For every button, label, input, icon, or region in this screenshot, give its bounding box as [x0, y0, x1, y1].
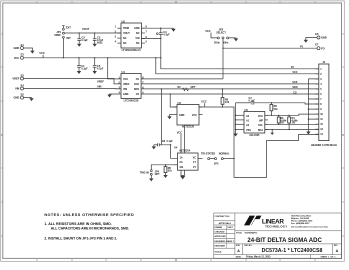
svg-text:CHECKED: CHECKED: [215, 232, 225, 234]
title block address: [291, 215, 329, 229]
svg-text:FO: FO: [321, 46, 325, 50]
resistor R2 OPT: [178, 86, 197, 91]
svg-text:CS: CS: [293, 91, 297, 94]
jumper JP3: [201, 153, 230, 166]
wire U5 VCC to J1 pin10: [265, 114, 319, 115]
connector J1: [311, 60, 337, 147]
resistor R3: [277, 115, 287, 125]
wire VREF to U1: [24, 79, 122, 84]
svg-text:LTC2400CS8: LTC2400CS8: [124, 99, 139, 102]
svg-text:OPT: OPT: [191, 86, 197, 89]
svg-text:6032: 6032: [97, 41, 103, 44]
svg-text:F0: F0: [300, 44, 304, 48]
wire VCC rail corner to J1 pin1: [161, 58, 319, 69]
ground stub near U5 SDA: [270, 129, 274, 135]
wire U4 bottom to ground: [180, 170, 185, 179]
svg-text:SHEET 1 OF 1: SHEET 1 OF 1: [321, 257, 337, 259]
svg-text:INT: INT: [67, 36, 72, 40]
svg-text:SCHEMATIC: SCHEMATIC: [245, 232, 258, 235]
svg-text:DATE:: DATE:: [236, 256, 242, 259]
svg-text:VCC: VCC: [14, 56, 20, 60]
svg-text:4.7µF: 4.7µF: [97, 68, 104, 71]
junction: [79, 32, 80, 33]
svg-text:0.1µF: 0.1µF: [82, 39, 89, 42]
svg-text:SELECT: SELECT: [216, 32, 226, 35]
svg-text:E1: E1: [21, 43, 25, 47]
svg-text:TECHNOLOGY: TECHNOLOGY: [265, 224, 287, 228]
wire F0 to terminal E7: [223, 47, 317, 49]
ground: [77, 71, 81, 74]
title text: [236, 232, 322, 244]
svg-text:NC: NC: [123, 42, 127, 45]
terminal E5 GND: [14, 93, 25, 100]
svg-text:51k: 51k: [168, 169, 173, 172]
ground: [152, 145, 156, 150]
svg-text:VOUT: VOUT: [82, 27, 90, 31]
wire F0 down to U1 F0 line: [222, 48, 224, 79]
capacitor C2: [77, 33, 88, 44]
svg-text:E4: E4: [21, 83, 25, 87]
svg-text:NC7SZ125: NC7SZ125: [182, 126, 195, 129]
svg-text:CS: CS: [136, 93, 140, 96]
jumper JP2 F0 select: [205, 28, 229, 45]
ground: [306, 132, 310, 135]
resistor R8: [270, 102, 278, 116]
svg-text:1: 1: [115, 26, 117, 29]
svg-text:E6: E6: [315, 32, 319, 36]
wire JP2 right to ground: [229, 37, 236, 39]
svg-text:ALL CAPACITORS ARE IN MICROFAR: ALL CAPACITORS ARE IN MICROFARADS, SMD.: [51, 227, 129, 231]
svg-text:GND: GND: [321, 36, 327, 40]
svg-text:51k: 51k: [274, 108, 279, 111]
capacitor C4: [156, 28, 170, 38]
svg-text:SIZE: SIZE: [236, 245, 241, 247]
notes text: [44, 213, 134, 240]
svg-text:GND: GND: [123, 93, 129, 96]
svg-text:GND: GND: [14, 96, 20, 100]
svg-text:Fax: (408)434-0507: Fax: (408)434-0507: [291, 222, 310, 225]
svg-text:VCC: VCC: [39, 51, 45, 55]
wire E6 to ground: [306, 38, 317, 40]
svg-text:0.1µF: 0.1µF: [167, 140, 174, 143]
svg-text:DRAWN: DRAWN: [215, 226, 223, 229]
svg-text:3: 3: [115, 36, 117, 39]
capacitor C7: [249, 96, 319, 105]
wire U1 GND to ground: [110, 93, 122, 95]
svg-text:2A: 2A: [180, 161, 183, 164]
op-amp U2 reference LT1460: [115, 19, 148, 52]
svg-text:NC: NC: [136, 42, 140, 45]
svg-text:A: A: [237, 249, 240, 253]
jumper JP4: [150, 170, 160, 176]
svg-text:VOUT: VOUT: [123, 32, 130, 35]
svg-text:JP3: JP3: [214, 161, 219, 165]
drawing number row: [236, 245, 339, 254]
svg-text:WP: WP: [259, 120, 263, 123]
svg-text:OPT: OPT: [155, 173, 161, 176]
terminal E1 GND: [14, 43, 25, 50]
terminal E3 VREF: [12, 73, 24, 80]
svg-text:1A: 1A: [180, 157, 183, 160]
junction: [63, 57, 64, 58]
svg-text:A: A: [336, 249, 339, 253]
capacitor C8: [154, 139, 173, 147]
wire JP3 to J1 pin14: [223, 158, 234, 160]
wire bus stubs to J1 pins: [308, 79, 318, 119]
svg-text:VC: VC: [193, 157, 197, 160]
svg-text:APPROVALS: APPROVALS: [219, 222, 232, 225]
junction: [160, 28, 161, 29]
svg-text:NC: NC: [136, 32, 140, 35]
wire VCC drop to U1: [108, 58, 121, 79]
jumper JP1: [54, 25, 71, 40]
svg-text:VCC: VCC: [292, 71, 297, 74]
ground U3: [167, 115, 173, 120]
svg-text:TRIM: TRIM: [123, 27, 129, 30]
wire U3 bottom to U4 top: [183, 125, 185, 153]
svg-text:U5: U5: [245, 108, 249, 112]
wire CS line to J1 pin6: [141, 93, 319, 95]
svg-text:VREF: VREF: [123, 83, 130, 86]
svg-text:VREF: VREF: [54, 33, 61, 37]
svg-text:EXT: EXT: [66, 25, 71, 29]
svg-text:NC: NC: [123, 37, 127, 40]
svg-text:VIN: VIN: [15, 87, 19, 91]
junction SDO drop: [161, 88, 162, 89]
svg-text:TRI-STATED: TRI-STATED: [201, 153, 215, 156]
ground: [304, 40, 308, 43]
svg-text:7: 7: [146, 31, 148, 34]
node VCC at U4: [177, 130, 183, 153]
wire SDO line to J1 pin5: [141, 88, 319, 90]
svg-text:VIN: VIN: [135, 37, 139, 40]
terminal E4 VIN: [15, 83, 24, 90]
svg-text:SCK: SCK: [134, 83, 139, 86]
terminal E2 VCC: [14, 53, 25, 60]
svg-text:SDO: SDO: [292, 86, 297, 89]
junction CS drop: [170, 93, 171, 94]
resistor R4: [288, 115, 299, 131]
svg-text:CONTRACT NO.: CONTRACT NO.: [215, 215, 231, 218]
svg-text:60Hz: 60Hz: [223, 41, 229, 44]
svg-text:E5: E5: [21, 93, 25, 97]
terminal E7 F0: [300, 43, 325, 51]
wire U5 address bus: [235, 103, 237, 134]
svg-text:E2: E2: [21, 53, 25, 57]
svg-text:VCC: VCC: [201, 99, 207, 103]
svg-text:2. INSTALL SHUNT ON JP1-JP3 P: 2. INSTALL SHUNT ON JP1-JP3 PIN 1 AND 2.: [44, 237, 117, 241]
wire F0 line U1 to J1 pin3: [141, 78, 223, 80]
wire SCL to J1 pin12: [265, 123, 319, 125]
inverter U4: [174, 145, 203, 170]
svg-text:Friday, March 21, 2003: Friday, March 21, 2003: [246, 257, 271, 259]
ground: [171, 29, 175, 32]
ground: [29, 98, 33, 101]
svg-text:U3: U3: [178, 101, 182, 105]
svg-text:SCK: SCK: [292, 81, 297, 84]
wire JP4 to U4: [151, 165, 173, 170]
svg-text:C8: C8: [162, 139, 166, 143]
svg-text:LT1460ACN8-2.5: LT1460ACN8-2.5: [122, 49, 142, 52]
wire SDA to J1 pin13: [265, 129, 319, 131]
resistor R6: [221, 88, 230, 107]
wire SDO down to U4: [161, 89, 177, 158]
svg-text:100: 100: [225, 101, 230, 104]
svg-text:GN: GN: [180, 166, 184, 169]
svg-text:FO: FO: [136, 78, 139, 81]
svg-text:VCC: VCC: [192, 114, 197, 117]
svg-text:0.1µF: 0.1µF: [249, 99, 256, 102]
wire E1 to ground: [24, 47, 33, 50]
wire JP1 INT to VCC rail: [62, 38, 64, 58]
svg-text:CHKT: CHKT: [227, 227, 233, 229]
wire JP4 bottom to ground: [149, 175, 153, 181]
svg-text:U4: U4: [174, 145, 178, 149]
svg-text:E7: E7: [315, 43, 319, 47]
capacitor C1: [77, 58, 88, 71]
wire VCC branch to J1 pin2: [156, 58, 319, 74]
ground: [234, 38, 238, 41]
capacitor C5: [93, 58, 104, 71]
svg-text:VREF: VREF: [97, 80, 104, 84]
svg-text:NOTES: UNLESS OTHERWISE SPECI: NOTES: UNLESS OTHERWISE SPECIFIED: [44, 213, 134, 217]
svg-text:0.1µF: 0.1µF: [81, 68, 88, 71]
svg-text:SDA: SDA: [258, 129, 263, 132]
svg-text:NORMAL: NORMAL: [219, 153, 230, 156]
wire U3 out to JP3: [199, 107, 319, 177]
svg-text:U2: U2: [122, 19, 126, 23]
wire U2 VIN to VCC: [142, 39, 161, 58]
node net labels near J1: [291, 66, 298, 94]
ground: [93, 71, 97, 74]
wire VCC rail: [24, 57, 161, 59]
svg-text:NC7SZ04: NC7SZ04: [180, 150, 191, 153]
ground: [30, 48, 34, 53]
ground: [77, 44, 81, 47]
svg-text:24-BIT DELTA SIGMA ADC: 24-BIT DELTA SIGMA ADC: [247, 238, 322, 244]
svg-text:VCC: VCC: [177, 130, 183, 134]
wire SCK line to J1 pin4: [141, 83, 319, 85]
svg-text:VCC: VCC: [258, 115, 263, 118]
svg-text:VIN: VIN: [97, 85, 101, 89]
svg-text:REV: REV: [334, 245, 338, 247]
node VCC at U3: [201, 99, 207, 107]
EEPROM U5: [236, 108, 268, 137]
svg-text:DESIGNER: DESIGNER: [215, 246, 226, 248]
capacitor C3: [93, 33, 104, 44]
ground: [163, 175, 167, 178]
wire CS down to U3: [170, 94, 177, 107]
svg-text:SDO: SDO: [134, 88, 139, 91]
wire VIN to U1: [24, 88, 122, 90]
ground: [233, 134, 237, 137]
svg-text:LTC Confidential-For Customer: LTC Confidential-For Customer Use Only: [291, 225, 329, 228]
wire E5 to ground: [24, 97, 32, 99]
svg-text:VSS: VSS: [246, 129, 251, 132]
ground: [93, 44, 97, 47]
svg-text:VIN: VIN: [123, 88, 127, 91]
svg-text:50Hz: 50Hz: [214, 41, 220, 44]
svg-text:4: 4: [115, 41, 117, 44]
svg-text:J1: J1: [322, 60, 325, 64]
svg-text:E3: E3: [21, 73, 25, 77]
buffer U3: [174, 101, 203, 129]
wire J1 ground bus: [307, 79, 309, 132]
svg-text:VCC: VCC: [205, 29, 211, 33]
date sheet row: [236, 256, 337, 259]
wire JP2 common down to F0 node: [222, 39, 224, 48]
svg-text:GND: GND: [134, 27, 140, 30]
svg-text:24LC025: 24LC025: [249, 134, 260, 137]
ADC U1 LTC2400CS8: [118, 70, 144, 102]
svg-text:1. ALL RESISTORS ARE IN OHMS,: 1. ALL RESISTORS ARE IN OHMS, SMD.: [44, 222, 111, 226]
svg-text:SCALE: SCALE: [215, 251, 222, 254]
ground: [107, 95, 111, 98]
title block: [214, 213, 342, 258]
svg-text:1Y: 1Y: [193, 161, 196, 164]
svg-text:U1: U1: [122, 70, 126, 74]
svg-text:DWG NO.: DWG NO.: [244, 245, 252, 247]
wire C7 bus: [236, 102, 252, 104]
svg-text:TITLE:: TITLE:: [236, 233, 243, 235]
logo Linear Technology: [244, 216, 287, 229]
resistor R5: [164, 164, 172, 175]
svg-text:4.7µF: 4.7µF: [163, 34, 170, 37]
terminal E6 GND: [315, 32, 327, 40]
svg-text:TRIG IN: TRIG IN: [140, 171, 149, 174]
svg-text:SCL: SCL: [258, 124, 263, 127]
junction: [160, 38, 161, 39]
wire U2 GND pin: [142, 27, 174, 29]
node VCC label: [39, 51, 45, 58]
svg-text:GND: GND: [14, 46, 20, 50]
svg-text:DC573A-1 * LTC2400CS8: DC573A-1 * LTC2400CS8: [262, 248, 323, 254]
svg-text:5: 5: [146, 41, 148, 44]
svg-text:ENGINEER: MARK T: ENGINEER: MARK T: [215, 240, 235, 243]
svg-text:VCC: VCC: [123, 78, 128, 81]
wire JP1 common to U2 VOUT: [64, 32, 121, 34]
svg-text:2Y: 2Y: [193, 166, 196, 169]
svg-text:HEADER 14 PIN MALE: HEADER 14 PIN MALE: [311, 144, 337, 147]
svg-text:GND: GND: [179, 114, 185, 117]
svg-text:APPROVED: APPROVED: [215, 235, 227, 238]
svg-text:VREF: VREF: [12, 77, 19, 81]
